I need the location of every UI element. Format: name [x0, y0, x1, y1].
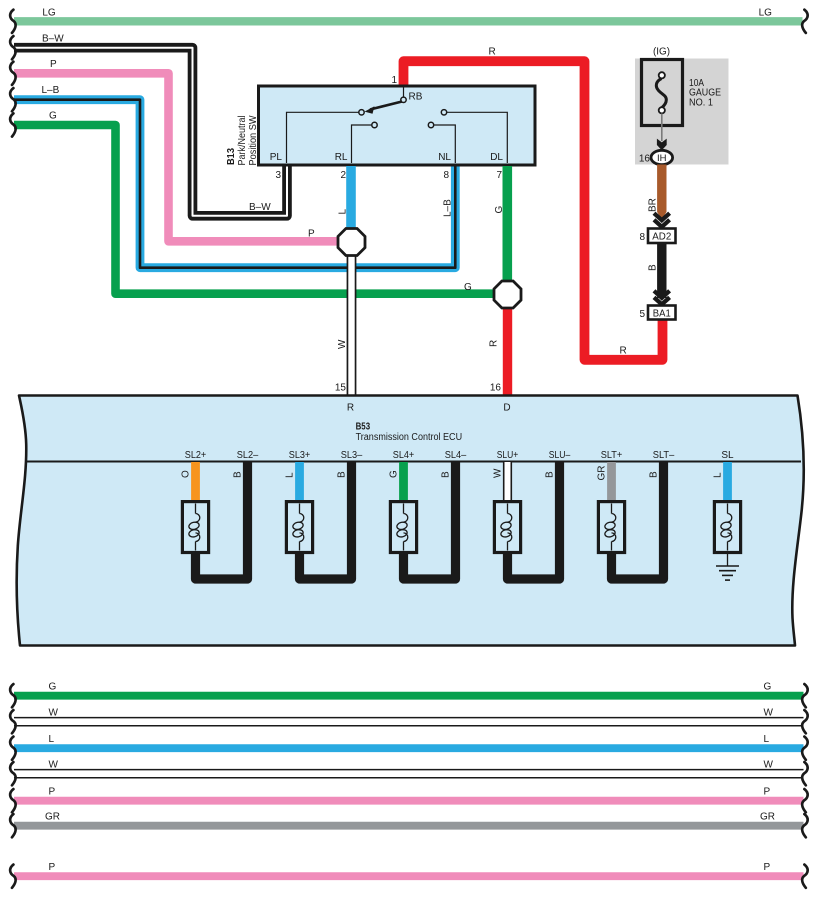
svg-text:B: B [441, 471, 452, 478]
svg-text:GR: GR [45, 811, 60, 822]
svg-text:PL: PL [270, 152, 283, 163]
svg-text:SL4+: SL4+ [393, 450, 415, 461]
solenoid SL4 with + wire (G) and - wire (B) [389, 462, 456, 579]
wire P (pink) from left edge to junction J1 [10, 59, 346, 241]
svg-text:P: P [764, 862, 771, 873]
ECU B53 Transmission Control ECU body (light blue block) [17, 396, 804, 646]
svg-text:SLT–: SLT– [653, 450, 675, 461]
svg-text:IH: IH [657, 153, 667, 164]
junction J1 (octagon splice) [338, 229, 365, 256]
svg-text:D: D [503, 403, 510, 414]
svg-text:P: P [308, 229, 315, 240]
svg-text:G: G [464, 282, 472, 293]
svg-text:RL: RL [335, 152, 348, 163]
svg-text:SL2–: SL2– [237, 450, 259, 461]
svg-text:R: R [347, 403, 354, 414]
switch moving arm with arrowhead pointing to PL contact [365, 102, 403, 114]
solenoid SLT with + wire (GR) and - wire (B) [597, 462, 664, 579]
wire W (white) from junction J1 to ECU pin 15 [335, 242, 352, 395]
ECU solenoid pin labels SL2+ ... SL [185, 450, 734, 461]
wire GR (bottom section, y=825.7) [10, 811, 808, 837]
wire from fuse to connector IH with arrow [657, 114, 667, 151]
svg-text:W: W [764, 707, 774, 718]
gray highlight box around fuse circuit [635, 59, 729, 165]
solenoid SLU with + wire (W) and - wire (B) [493, 462, 560, 579]
svg-text:W: W [49, 707, 59, 718]
ECU pin names R and D [347, 403, 511, 414]
switch pin numbers 1 3 2 8 7 [275, 75, 502, 181]
contact NL circle and line to pin NL [428, 122, 455, 163]
svg-text:R: R [489, 340, 500, 347]
svg-text:L: L [49, 734, 55, 745]
svg-text:GR: GR [760, 811, 775, 822]
svg-text:SL: SL [721, 450, 734, 461]
wire L (bottom section, y=748.2) [10, 734, 808, 760]
switch B13 Park/Neutral Position SW body [259, 86, 536, 165]
ECU internal pin rail line [25, 461, 801, 463]
svg-text:SL4–: SL4– [445, 450, 467, 461]
svg-text:7: 7 [496, 170, 502, 181]
svg-text:BR: BR [648, 198, 659, 212]
connector AD2 pin 8 [639, 229, 675, 244]
wire BR (brown) from IH to connector AD2 [648, 165, 667, 220]
svg-text:B: B [648, 264, 659, 271]
svg-text:GR: GR [597, 466, 608, 481]
label (IG) [653, 47, 670, 58]
svg-text:B53: B53 [356, 422, 371, 433]
wire G (bottom section, y=695.7) [10, 681, 808, 707]
svg-text:B13: B13 [226, 148, 237, 165]
wire R (red) from junction J2 to ECU pin 16 [489, 294, 508, 395]
wire W (bottom section, y=721.7) [10, 707, 808, 733]
contact DL circle and line to pin DL [441, 110, 507, 163]
svg-text:LG: LG [42, 8, 56, 19]
fuse value label 10A GAUGE NO. 1 [689, 78, 721, 108]
svg-text:G: G [49, 681, 57, 692]
inline connector arrows into AD2 [654, 213, 670, 227]
B13 designator and name (rotated) [226, 115, 259, 166]
svg-text:B: B [337, 471, 348, 478]
svg-text:O: O [181, 470, 192, 478]
svg-text:1: 1 [391, 75, 397, 86]
svg-text:NL: NL [438, 152, 451, 163]
svg-text:G: G [49, 111, 57, 122]
svg-text:P: P [764, 786, 771, 797]
svg-text:W: W [493, 468, 504, 478]
svg-text:2: 2 [340, 170, 346, 181]
junction J2 (octagon splice) [494, 281, 521, 308]
fuse 10A GAUGE NO. 1 [642, 60, 683, 126]
svg-text:BA1: BA1 [653, 309, 671, 320]
svg-text:SLU+: SLU+ [497, 450, 519, 461]
svg-text:8: 8 [443, 170, 449, 181]
switch pin labels PL RL NL DL [270, 152, 504, 163]
svg-text:P: P [49, 862, 56, 873]
svg-text:L: L [285, 472, 296, 478]
svg-text:SL3+: SL3+ [289, 450, 311, 461]
solenoid SL2 with + wire (O) and - wire (B) [181, 462, 248, 579]
wire P (bottom section, y=876.2) [10, 862, 808, 888]
svg-text:15: 15 [335, 383, 347, 394]
wire B-W (black/white) from left edge to Park/Neutral SW pin PL [10, 33, 287, 216]
svg-text:B: B [545, 471, 556, 478]
contact PL circle and line to pin PL [287, 110, 365, 163]
svg-text:P: P [49, 786, 56, 797]
svg-text:Transmission Control ECU: Transmission Control ECU [356, 432, 463, 443]
wire B (black) from AD2 to connector BA1 [648, 243, 662, 298]
svg-text:5: 5 [639, 309, 645, 320]
svg-text:RB: RB [409, 92, 423, 103]
svg-text:R: R [489, 47, 496, 58]
svg-text:SL2+: SL2+ [185, 450, 207, 461]
solenoid SL3 with + wire (L) and - wire (B) [285, 462, 352, 579]
svg-text:W: W [337, 339, 348, 349]
connector IH pin 16 [639, 150, 673, 164]
svg-text:P: P [50, 59, 57, 70]
svg-text:G: G [389, 470, 400, 478]
wire W (bottom section, y=773.7) [10, 759, 808, 785]
svg-text:(IG): (IG) [653, 47, 670, 58]
svg-text:L: L [764, 734, 770, 745]
wire P (bottom section, y=800.7) [10, 786, 808, 812]
svg-text:B–W: B–W [42, 33, 64, 44]
connector BA1 pin 5 [639, 306, 675, 321]
svg-text:NO. 1: NO. 1 [689, 97, 713, 108]
svg-text:L–B: L–B [443, 199, 454, 217]
wire L-B (blue/black) from left edge to Park/Neutral SW pin NL [10, 85, 455, 268]
wire R (red) from fuse circuit connector BA1 to Park/Neutral SW pin 1 [404, 47, 663, 360]
svg-text:B: B [233, 471, 244, 478]
svg-text:B: B [649, 471, 660, 478]
ground symbol under solenoid SL [716, 566, 739, 580]
switch pivot contact RB [401, 87, 423, 103]
svg-text:SLU–: SLU– [549, 450, 571, 461]
svg-text:B–W: B–W [249, 202, 271, 213]
svg-text:16: 16 [490, 383, 502, 394]
svg-text:LG: LG [759, 8, 773, 19]
svg-text:AD2: AD2 [652, 232, 671, 243]
svg-text:W: W [49, 759, 59, 770]
svg-text:Park/Neutral: Park/Neutral [237, 116, 248, 166]
svg-text:W: W [764, 759, 774, 770]
solenoid SL with wire L [713, 462, 741, 566]
svg-text:R: R [620, 346, 627, 357]
svg-text:8: 8 [639, 232, 645, 243]
svg-text:DL: DL [490, 152, 503, 163]
svg-text:L: L [338, 209, 349, 215]
svg-text:L–B: L–B [42, 85, 60, 96]
contact RL circle and line to pin RL [352, 122, 378, 163]
wire L (blue) from pin RL to junction J1 [338, 166, 352, 240]
wire G (green) from left edge to junction J2 [10, 111, 501, 294]
svg-text:SL3–: SL3– [341, 450, 363, 461]
svg-text:3: 3 [275, 170, 281, 181]
ECU designator B53 and name [356, 422, 463, 444]
svg-text:16: 16 [639, 154, 651, 165]
svg-text:G: G [764, 681, 772, 692]
inline connector arrows into BA1 [654, 291, 670, 305]
svg-text:Position SW: Position SW [248, 115, 259, 166]
svg-text:G: G [494, 206, 505, 214]
svg-text:SLT+: SLT+ [601, 450, 623, 461]
wire G (green) from pin DL to junction J2 [494, 166, 507, 293]
svg-text:L: L [713, 472, 724, 478]
wire LG (light green), full width [10, 8, 808, 33]
